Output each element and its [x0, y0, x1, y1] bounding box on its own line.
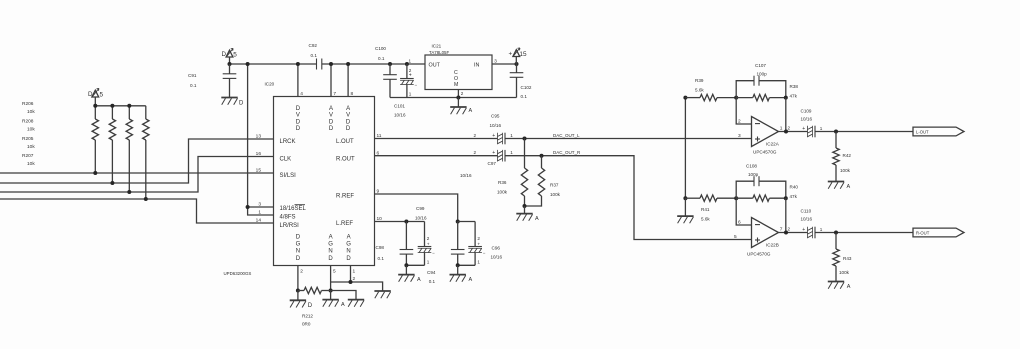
ground (analog spur) [348, 300, 364, 307]
wire: DVDD rail from D+5 to C92 [230, 63, 317, 65]
svg-text:UPC4570G: UPC4570G [747, 252, 771, 257]
svg-text:D: D [222, 51, 227, 58]
label AGND column [328, 235, 333, 262]
junction: R36/R37 bottom [523, 204, 527, 208]
svg-text:L.OUT: L.OUT [336, 139, 354, 145]
power symbol D +5 (DVDD rail) [222, 48, 238, 64]
svg-text:D: D [346, 256, 351, 262]
label C101 pins 2/+/1 [409, 68, 412, 97]
svg-text:2: 2 [788, 126, 791, 131]
label C109 pins 2/+/1 [788, 126, 823, 132]
svg-text:N: N [328, 249, 332, 255]
label R212 0R0 [302, 314, 313, 327]
label UPC4570G [753, 150, 777, 155]
svg-text:C99: C99 [416, 206, 425, 211]
svg-text:+: + [802, 126, 805, 132]
resistor R42 100k [833, 132, 839, 182]
svg-text:LR/RSI: LR/RSI [280, 223, 300, 229]
svg-text:+: + [492, 133, 495, 139]
svg-text:5: 5 [233, 51, 237, 58]
pin number 7 (op-amp out) [780, 227, 783, 233]
label C97 pins 2/+/1 [474, 150, 514, 156]
resistor R38 47k (feedback) [736, 94, 788, 100]
label UPC4570G [747, 252, 771, 257]
pin number 5 [333, 269, 336, 275]
op-amp IC22B UPC4570G [752, 218, 779, 248]
svg-text:C95: C95 [491, 114, 500, 119]
svg-text:DAC_OUT_R: DAC_OUT_R [553, 150, 581, 155]
capacitor C97 10/16 electrolytic (R coupling) [498, 150, 506, 162]
svg-text:D: D [308, 303, 313, 309]
svg-text:C96: C96 [492, 246, 501, 251]
svg-text:2: 2 [738, 118, 741, 124]
svg-text:100k: 100k [839, 270, 850, 275]
svg-text:2: 2 [477, 236, 480, 241]
svg-text:SI/LSI: SI/LSI [280, 173, 297, 179]
connector terminal L-OUT [913, 127, 964, 136]
svg-text:A: A [346, 106, 350, 112]
resistor R40 47k (feedback) [736, 195, 788, 201]
pin number 1 (reg OUT) [409, 59, 412, 64]
pin number 6 [377, 150, 380, 156]
svg-text:10/16: 10/16 [394, 113, 406, 118]
svg-text:TA78L05F: TA78L05F [429, 50, 449, 55]
capacitor C100 0.1 [383, 62, 397, 98]
label IC22A [766, 142, 780, 147]
label C110 10/16 [801, 209, 813, 222]
wire: DAC_OUT_L node to op-amp pin 3 [505, 137, 752, 141]
wire: pin 12 AGND stub [350, 266, 352, 283]
svg-text:D: D [328, 256, 333, 262]
wire: CLK bus line to pin 16 [0, 157, 274, 193]
svg-text:2: 2 [427, 236, 430, 241]
svg-text:0.1: 0.1 [429, 279, 436, 284]
svg-text:IN: IN [474, 62, 479, 68]
svg-text:7: 7 [780, 227, 783, 233]
label IC20 [265, 82, 275, 87]
ground A (pin 5 / R212) [322, 291, 345, 309]
capacitor C99 10/16 electrolytic [406, 222, 435, 266]
pin number 5 [734, 234, 737, 240]
svg-text:2: 2 [474, 150, 477, 155]
svg-text:0.1: 0.1 [378, 256, 385, 261]
wire: pin 10 L.REF to caps [375, 220, 425, 224]
pin number 13 [256, 133, 262, 139]
svg-text:15: 15 [256, 167, 262, 173]
resistor R206 10k (pull-up 1) [92, 106, 98, 173]
svg-text:R207: R207 [22, 153, 34, 159]
svg-text:2: 2 [461, 91, 464, 96]
svg-text:IC20: IC20 [265, 82, 275, 87]
svg-text:1: 1 [510, 133, 513, 138]
svg-text:D: D [346, 126, 351, 132]
label C108 100p [746, 164, 759, 178]
svg-text:A: A [341, 302, 345, 308]
junction: pull-up rail dots [93, 104, 131, 108]
resistor R39 5.6k [685, 94, 736, 100]
wire: DAC_OUT_R node to op-amp pin 5 [505, 154, 752, 240]
pin number 2 [300, 269, 303, 275]
connector terminal R-OUT [913, 228, 964, 237]
ground D (pin 2) [290, 291, 313, 310]
label AGND column [346, 235, 351, 262]
svg-text:1: 1 [510, 150, 513, 155]
svg-text:UPD63200GS: UPD63200GS [224, 271, 252, 276]
label C99 pins 2/+/1 [427, 236, 430, 265]
label R39 5.6k [695, 78, 704, 93]
svg-text:47k: 47k [790, 94, 798, 99]
svg-text:3: 3 [494, 59, 497, 64]
svg-text:R38: R38 [790, 84, 799, 89]
label AVDD column [346, 106, 351, 132]
ground A (R42) [828, 182, 851, 191]
svg-text:0.1: 0.1 [521, 94, 528, 99]
capacitor C108 100p (feedback) [736, 176, 786, 198]
label IC22B [766, 243, 779, 248]
svg-text:R.REF: R.REF [336, 193, 354, 199]
capacitor C96 10/16 electrolytic [458, 222, 486, 266]
svg-text:10/16: 10/16 [460, 173, 472, 178]
wire: IC22B output to C110 [779, 231, 808, 235]
wire: pin 6 R.OUT to C97 [375, 155, 498, 157]
svg-text:R43: R43 [843, 256, 852, 261]
svg-text:+: + [802, 227, 805, 233]
svg-text:M: M [454, 82, 458, 88]
label R207 10k [22, 153, 35, 167]
label R.OUT (pin 6) [336, 156, 355, 162]
svg-text:1: 1 [409, 59, 412, 64]
pin number 3 [738, 133, 741, 139]
pin number 16 [256, 151, 262, 157]
label LR/RSI (pin 14) [280, 223, 300, 229]
svg-text:1: 1 [409, 92, 412, 97]
pin number 15 [256, 167, 262, 173]
svg-text:R206: R206 [22, 101, 34, 107]
svg-text:5.6k: 5.6k [695, 88, 704, 93]
svg-text:100k: 100k [840, 168, 851, 173]
pin number 3 (reg IN) [494, 59, 497, 64]
svg-text:+: + [427, 242, 430, 247]
wire: regulator IN to +15 [492, 62, 519, 66]
label C98 0.1 [376, 245, 385, 261]
svg-text:13: 13 [256, 133, 262, 139]
pin number 2 (reg COM) [461, 91, 464, 96]
svg-text:G: G [346, 242, 351, 248]
label R41 5.6k [701, 207, 710, 222]
wire: IC22A pin 2 input [736, 98, 751, 124]
pin number 3 [258, 201, 261, 207]
label DVDD column [296, 106, 301, 132]
svg-text:2: 2 [353, 276, 356, 282]
ground D (under C91) [221, 98, 244, 107]
wire: pin 4 DVDD stub [296, 62, 300, 97]
wire: feedback to output node [785, 98, 787, 132]
svg-text:D: D [296, 119, 301, 125]
svg-text:V: V [296, 113, 300, 119]
svg-text:D: D [329, 119, 334, 125]
label LRCK (pin 13) [280, 139, 296, 145]
svg-text:18/16SEL: 18/16SEL [280, 206, 307, 212]
label 18/16SEL (pin 3, overline SEL) [280, 205, 307, 212]
capacitor C94 0.1 [451, 222, 465, 266]
capacitor C101 10/16 electrolytic [400, 62, 417, 98]
junction: IC22B inverting node [734, 196, 738, 200]
svg-text:47k: 47k [790, 194, 798, 199]
svg-text:0R0: 0R0 [302, 322, 311, 327]
svg-text:100p: 100p [757, 72, 768, 77]
svg-text:3: 3 [738, 133, 741, 139]
label C97 10/16 [460, 161, 496, 178]
label R206 10k [22, 101, 35, 115]
svg-text:IC21: IC21 [432, 43, 442, 48]
svg-text:R41: R41 [701, 207, 710, 212]
pin number 9 [377, 189, 380, 195]
wire: analog ground spur [331, 291, 356, 300]
svg-text:10k: 10k [27, 109, 35, 115]
ground A (R.REF caps) [450, 265, 473, 283]
svg-text:D: D [296, 235, 301, 241]
resistor R208 10k (pull-up 2) [109, 106, 115, 183]
pin number 10 [377, 216, 383, 222]
svg-text:0.1: 0.1 [378, 56, 385, 61]
svg-text:−: − [415, 83, 418, 88]
svg-text:R.OUT: R.OUT [336, 156, 355, 162]
wire: C110 to R-OUT [815, 231, 913, 235]
junction: D+5 rail entry [228, 62, 232, 66]
svg-text:10k: 10k [27, 161, 35, 167]
svg-text:10k: 10k [27, 126, 35, 132]
label L.OUT (pin 11) [336, 139, 354, 145]
svg-text:A: A [417, 277, 421, 283]
resistor R41 5.6k [685, 195, 736, 201]
wire: D+5 to pins 3/1 (mode select tie) [248, 64, 274, 215]
svg-text:A: A [847, 284, 851, 290]
svg-text:C97: C97 [488, 161, 497, 166]
ground A (regulator COM) [450, 98, 472, 115]
label IC21 TA78L05F [429, 43, 449, 55]
svg-text:14: 14 [256, 217, 262, 223]
svg-text:R208: R208 [22, 119, 34, 125]
svg-text:C101: C101 [394, 104, 405, 109]
svg-text:C108: C108 [746, 164, 757, 169]
junction: C98/C99 bottom [404, 263, 408, 267]
pin number 1 (op-amp out) [780, 126, 783, 132]
label R37 100k [550, 183, 561, 198]
label R38 47k [790, 84, 799, 99]
pin number 11 [377, 133, 382, 139]
svg-text:R212: R212 [302, 314, 313, 319]
capacitor C109 10/16 electrolytic [808, 126, 816, 138]
svg-text:C91: C91 [188, 73, 197, 78]
label C91 0.1 [188, 73, 197, 88]
svg-text:1: 1 [820, 126, 823, 131]
svg-text:C94: C94 [427, 270, 436, 275]
svg-text:10/16: 10/16 [801, 217, 813, 222]
label C99 10/16 [415, 206, 427, 221]
resistor R37 100k (DAC_OUT_R load) [525, 156, 545, 206]
svg-text:−: − [483, 251, 486, 256]
svg-text:R-OUT: R-OUT [916, 230, 930, 235]
label C95 pins 2/+/1 [474, 133, 514, 139]
wire: feedback to output node [785, 198, 787, 232]
wire: COM pin stub [456, 90, 460, 100]
label C109 10/16 [801, 109, 813, 122]
svg-text:D: D [346, 119, 351, 125]
svg-text:LRCK: LRCK [280, 139, 296, 145]
junction: pins 3/1 tie [246, 62, 250, 209]
pin number 7 [333, 91, 336, 97]
svg-text:10/16: 10/16 [490, 123, 502, 128]
svg-text:+: + [409, 73, 412, 79]
wire: regulator bottom rail [390, 97, 517, 99]
svg-text:100k: 100k [550, 192, 561, 197]
svg-text:R205: R205 [22, 136, 34, 142]
capacitor C91 0.1 (D+5 decoupling) [223, 64, 237, 97]
label CLK (pin 16) [280, 157, 292, 163]
svg-text:100k: 100k [497, 190, 508, 195]
resistor R205 10k (pull-up 3) [126, 106, 132, 192]
pin number 8 [351, 91, 354, 97]
svg-text:C102: C102 [521, 85, 532, 90]
label DGND column [296, 235, 301, 262]
svg-text:−: − [432, 251, 435, 256]
label R36 100k [497, 180, 508, 195]
svg-text:R39: R39 [695, 78, 704, 83]
wire: pin 5 AGND stub [329, 266, 333, 293]
svg-text:D: D [296, 106, 301, 112]
svg-text:1: 1 [353, 269, 356, 275]
pin number 14 [256, 217, 262, 223]
svg-text:5.6k: 5.6k [701, 217, 710, 222]
svg-text:N: N [296, 249, 300, 255]
label R205 10k [22, 136, 35, 150]
svg-text:A: A [329, 235, 333, 241]
op IC20 UPD63200GS DAC box [274, 97, 375, 266]
svg-text:N: N [346, 249, 350, 255]
wire: pin 8 AVDD stub [346, 62, 350, 97]
op-amp IC22A UPC4570G [752, 117, 779, 147]
label SI/LSI (pin 15) [280, 173, 297, 179]
svg-text:C107: C107 [755, 63, 766, 68]
capacitor C95 10/16 electrolytic (L coupling) [498, 133, 506, 145]
pin number 1 [258, 209, 261, 215]
label C96 pins 2/+/1 [477, 236, 480, 265]
svg-text:L.REF: L.REF [336, 221, 353, 227]
svg-text:2: 2 [788, 227, 791, 232]
svg-text:10/16: 10/16 [415, 216, 427, 221]
pin number 2 [738, 118, 741, 124]
svg-text:C98: C98 [376, 245, 385, 250]
svg-text:A: A [347, 235, 351, 241]
svg-text:A: A [469, 108, 473, 114]
wire: AGND pins 5/12 rail to right ground [331, 280, 383, 291]
junction: IC22A inverting node [734, 96, 738, 100]
label C94 0.1 [427, 270, 436, 284]
svg-text:OUT: OUT [429, 62, 441, 68]
wire: IC22B pin 6 input [736, 198, 751, 225]
svg-text:2: 2 [474, 133, 477, 138]
pin number 6 [738, 219, 741, 225]
svg-text:L-OUT: L-OUT [916, 129, 929, 134]
svg-text:C92: C92 [309, 43, 318, 48]
svg-text:IC22B: IC22B [766, 243, 779, 248]
svg-text:1: 1 [258, 209, 261, 215]
pin number 4 [300, 91, 303, 97]
svg-text:D: D [296, 126, 301, 132]
wire: pin 2 DGND stub [296, 266, 300, 293]
svg-text:100p: 100p [748, 172, 759, 177]
ground A (R36/R37) [516, 206, 539, 222]
svg-text:R36: R36 [498, 180, 507, 185]
label R42 100k [840, 153, 851, 173]
svg-text:6: 6 [738, 219, 741, 225]
capacitor C92 0.1 (series in supply rail) [317, 59, 322, 70]
svg-text:+: + [477, 242, 480, 247]
svg-text:DAC_OUT_L: DAC_OUT_L [553, 133, 580, 138]
wire: LR/RSI bus line to pin 14 [0, 199, 274, 223]
pin number 12 (stacked) [353, 269, 356, 283]
label UPD63200GS [224, 271, 252, 276]
svg-text:D: D [329, 126, 334, 132]
resistor R43 100k [833, 233, 839, 282]
label C101 10/16 [394, 104, 406, 118]
svg-text:A: A [535, 216, 539, 222]
svg-text:G: G [296, 242, 301, 248]
label C100 0.1 [375, 46, 386, 61]
label C96 10/16 [491, 246, 503, 260]
wire: SI/LSI bus line to pin 15 [0, 172, 274, 174]
resistor R36 100k (DAC_OUT_L load) [521, 139, 527, 207]
junction: pull-ups to bus lines [93, 171, 148, 201]
junction: C94/C96 bottom [456, 263, 460, 267]
svg-text:V: V [346, 113, 350, 119]
svg-text:5: 5 [734, 234, 737, 240]
wire: IC22A output to C109 [779, 130, 808, 134]
label C110 pins 2/+/1 [788, 227, 823, 233]
svg-text:D: D [88, 91, 93, 98]
svg-text:R40: R40 [790, 185, 799, 190]
wire: AVDD rail from C92 to regulator OUT [322, 63, 425, 65]
label C92 0.1 [309, 43, 318, 58]
svg-text:D: D [296, 256, 301, 262]
svg-text:C110: C110 [801, 209, 812, 214]
label C102 0.1 [521, 85, 532, 99]
svg-text:10/16: 10/16 [491, 255, 503, 260]
wire: pull-up rail [95, 105, 146, 107]
svg-text:0.1: 0.1 [190, 83, 197, 88]
svg-text:1: 1 [780, 126, 783, 132]
svg-text:R42: R42 [843, 153, 852, 158]
svg-text:A: A [469, 277, 473, 283]
label C95 10/16 [490, 114, 502, 129]
svg-text:1: 1 [477, 260, 480, 265]
label R40 47k [790, 185, 799, 200]
svg-text:+: + [509, 50, 513, 57]
svg-text:G: G [328, 242, 333, 248]
ground (AGND rail, right) [374, 291, 390, 298]
svg-text:0.1: 0.1 [311, 53, 318, 58]
wire: LRCK bus line to pin 13 [0, 139, 274, 183]
wire: pin 9 R.REF to caps [375, 194, 460, 224]
label AVDD column [329, 106, 334, 132]
svg-text:V: V [329, 113, 333, 119]
ground A (L.REF caps) [398, 265, 421, 283]
capacitor C98 0.1 [400, 222, 414, 266]
label R43 100k [839, 256, 852, 275]
svg-text:5: 5 [100, 91, 104, 98]
power symbol A +15 [509, 48, 527, 64]
label C107 100p [755, 63, 767, 77]
